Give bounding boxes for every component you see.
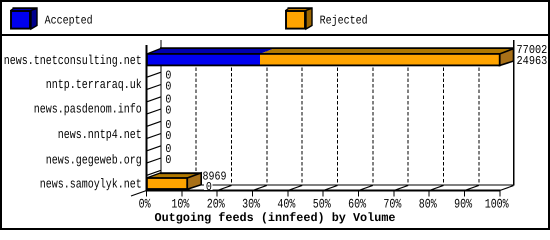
svg-text:0%: 0% — [139, 196, 151, 211]
svg-text:100%: 100% — [485, 196, 509, 211]
svg-text:news.nntp4.net: news.nntp4.net — [58, 127, 142, 142]
svg-text:news.pasdenom.info: news.pasdenom.info — [34, 101, 142, 116]
svg-text:news.samoylyk.net: news.samoylyk.net — [40, 177, 142, 192]
svg-text:40%: 40% — [277, 196, 295, 211]
svg-text:90%: 90% — [454, 196, 472, 211]
svg-text:Outgoing feeds (innfeed) by Vo: Outgoing feeds (innfeed) by Volume — [155, 211, 396, 225]
svg-text:0: 0 — [206, 180, 212, 194]
svg-text:30%: 30% — [242, 196, 260, 211]
svg-text:nntp.terraraq.uk: nntp.terraraq.uk — [46, 77, 142, 92]
svg-text:10%: 10% — [171, 196, 189, 211]
svg-text:Accepted: Accepted — [45, 14, 93, 28]
svg-text:0: 0 — [165, 153, 171, 167]
svg-text:20%: 20% — [207, 196, 225, 211]
svg-text:70%: 70% — [383, 196, 401, 211]
svg-text:60%: 60% — [348, 196, 366, 211]
svg-text:80%: 80% — [419, 196, 437, 211]
svg-text:news.gegeweb.org: news.gegeweb.org — [46, 152, 142, 167]
svg-text:Rejected: Rejected — [320, 14, 368, 28]
svg-text:50%: 50% — [313, 196, 331, 211]
svg-text:24963: 24963 — [517, 54, 548, 68]
svg-text:0: 0 — [165, 104, 171, 118]
svg-text:0: 0 — [165, 129, 171, 143]
svg-text:news.tnetconsulting.net: news.tnetconsulting.net — [4, 53, 142, 68]
